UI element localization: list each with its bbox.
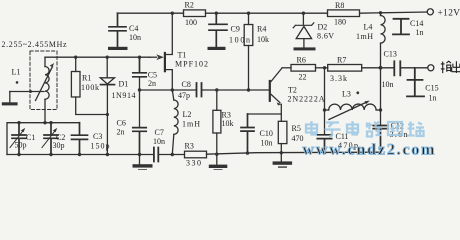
svg-text:150p: 150p xyxy=(91,142,110,151)
variable capacitor C2 xyxy=(44,123,58,155)
svg-text:R2: R2 xyxy=(185,1,194,10)
svg-text:D1: D1 xyxy=(119,80,129,89)
svg-text:1n: 1n xyxy=(416,28,424,37)
watermark line 1 (hollow blue characters) xyxy=(306,121,424,137)
ground bar R5 xyxy=(273,161,293,164)
svg-text:2N2222A: 2N2222A xyxy=(288,95,325,104)
svg-text:1mH: 1mH xyxy=(356,32,373,41)
capacitor C3 xyxy=(72,123,88,155)
svg-text:10n: 10n xyxy=(382,80,394,89)
svg-text:R4: R4 xyxy=(257,25,266,34)
wire T1 drain to rail xyxy=(165,13,172,54)
svg-text:D2: D2 xyxy=(318,23,328,32)
T2 collector xyxy=(271,68,282,82)
wire ground bus left segment xyxy=(7,154,154,156)
T2 emitter with arrow xyxy=(271,94,280,102)
svg-text:10k: 10k xyxy=(222,119,234,128)
ground bar R3 xyxy=(209,165,228,168)
wire R1 bottom to D1 line xyxy=(76,97,108,115)
svg-text:C13: C13 xyxy=(384,50,397,59)
svg-text:www.cndz2.com: www.cndz2.com xyxy=(303,142,436,159)
inductor L1 (variable, in shield box) xyxy=(44,57,46,66)
variable capacitor C1 xyxy=(12,123,26,155)
svg-text:L1: L1 xyxy=(12,68,21,77)
ground bar L1 xyxy=(2,102,18,105)
svg-text:100k: 100k xyxy=(81,83,99,92)
label output (Chinese) xyxy=(441,61,460,73)
capacitor C11 xyxy=(317,135,331,153)
resistor R4 xyxy=(248,13,250,24)
svg-text:C15: C15 xyxy=(425,84,438,93)
inductor L2 xyxy=(172,90,174,100)
wire R4 bottom to base node xyxy=(248,46,250,91)
wire branch right tank (output node down to L3/C12) xyxy=(380,68,382,125)
svg-text:C1: C1 xyxy=(26,133,35,142)
svg-text:MPF102: MPF102 xyxy=(175,60,208,69)
resistor R7 xyxy=(328,65,362,72)
capacitor C10 xyxy=(241,114,254,153)
svg-text:T2: T2 xyxy=(288,86,297,95)
diode D1 xyxy=(106,57,108,77)
svg-text:C5: C5 xyxy=(148,70,157,79)
wire bus C7 to R3 xyxy=(159,154,185,156)
svg-text:T1: T1 xyxy=(178,51,187,60)
svg-text:2.255~2.455MHz: 2.255~2.455MHz xyxy=(2,40,67,49)
svg-text:C9: C9 xyxy=(231,25,240,34)
wire bus R3 to right xyxy=(207,152,381,154)
capacitor C5 xyxy=(133,57,146,77)
wire C8 to T2 base xyxy=(202,89,269,91)
svg-text:2n: 2n xyxy=(117,128,125,137)
svg-text:50p: 50p xyxy=(15,141,27,150)
svg-text:C8: C8 xyxy=(182,80,191,89)
capacitor C7 (series in bus) xyxy=(154,148,158,162)
ground bar C4 xyxy=(108,47,128,50)
resistor R3 10k xyxy=(216,90,218,110)
ground stem R3 xyxy=(216,154,218,165)
wire R7 to output node xyxy=(362,67,394,69)
ground bar C6 xyxy=(133,164,153,167)
shield dashed box L1 xyxy=(30,51,57,110)
terminal +12V xyxy=(427,9,433,15)
svg-text:R3: R3 xyxy=(185,142,194,151)
resistor R1 xyxy=(75,57,77,71)
gate arrow T1 xyxy=(149,56,157,58)
svg-text:3.3k: 3.3k xyxy=(330,74,347,83)
svg-text:2n: 2n xyxy=(148,79,156,88)
capacitor C8 (series) xyxy=(197,83,202,97)
arrow of adjustable core L3 xyxy=(329,102,366,119)
svg-text:30p: 30p xyxy=(53,141,65,150)
svg-text:R5: R5 xyxy=(292,124,301,133)
capacitor C14 xyxy=(393,19,409,35)
svg-text:C4: C4 xyxy=(129,24,138,33)
ground stem C6 xyxy=(139,155,141,165)
wire +12V rail left segment xyxy=(118,12,184,14)
wire source node xyxy=(140,89,197,91)
svg-text:1n: 1n xyxy=(429,94,437,103)
wire tank node top xyxy=(7,123,80,155)
capacitor C6 xyxy=(133,128,146,155)
wire gate bus xyxy=(45,56,150,58)
ground bar D2 xyxy=(294,47,316,50)
resistor R5 xyxy=(280,114,282,121)
arrow of adjustable core L1 xyxy=(36,67,53,101)
JFET T1 xyxy=(164,53,166,71)
svg-text:C14: C14 xyxy=(410,19,423,28)
svg-text:R1: R1 xyxy=(82,74,91,83)
zener diode D2 xyxy=(302,13,304,24)
BJT T2 xyxy=(269,81,271,101)
capacitor C12 xyxy=(373,126,388,153)
wire collector node to R6 xyxy=(282,67,291,69)
svg-text:47p: 47p xyxy=(178,91,190,100)
wire C13 to output terminal xyxy=(401,67,428,69)
terminal output xyxy=(428,65,434,71)
svg-text:L3: L3 xyxy=(342,90,351,99)
wire C5 bottom / C6 top vertical xyxy=(139,77,141,127)
ground bar C9 xyxy=(208,47,226,50)
svg-text:+12V: +12V xyxy=(438,9,460,19)
wire +12V rail right segment xyxy=(360,12,428,13)
wire R6 to junction xyxy=(316,67,328,69)
wire +12V rail mid segment xyxy=(206,12,328,14)
svg-text:10n: 10n xyxy=(153,137,165,146)
wire branch left tank (R6R7 junction down to L3/C11) xyxy=(324,68,326,135)
svg-text:C3: C3 xyxy=(93,132,102,141)
capacitor C4 xyxy=(109,13,126,46)
resistor R8 xyxy=(328,10,360,17)
svg-text:10n: 10n xyxy=(261,139,273,148)
svg-text:1mH: 1mH xyxy=(182,120,200,129)
capacitor C9 xyxy=(209,13,227,47)
svg-text:330: 330 xyxy=(186,158,201,167)
svg-text:100: 100 xyxy=(185,18,197,27)
resistor R6 xyxy=(291,65,316,72)
ground stem R5 xyxy=(280,153,282,161)
svg-text:10k: 10k xyxy=(257,35,269,44)
svg-text:10n: 10n xyxy=(129,33,141,42)
svg-text:180: 180 xyxy=(334,18,346,27)
svg-text:C7: C7 xyxy=(155,128,164,137)
svg-text:L4: L4 xyxy=(364,23,373,32)
svg-text:C10: C10 xyxy=(260,129,273,138)
svg-text:R7: R7 xyxy=(337,56,346,65)
svg-text:22: 22 xyxy=(299,72,307,81)
svg-text:R8: R8 xyxy=(335,1,344,10)
resistor R2 xyxy=(184,10,206,17)
capacitor C13 (series) xyxy=(394,61,400,75)
svg-text:C6: C6 xyxy=(117,119,126,128)
svg-text:R6: R6 xyxy=(297,56,306,65)
inductor L4 xyxy=(380,13,382,16)
inductor L3 (variable) xyxy=(325,109,329,111)
svg-text:100n: 100n xyxy=(229,35,250,44)
wire emitter node xyxy=(248,113,282,115)
capacitor C15 xyxy=(407,68,424,96)
resistor R3 330 xyxy=(185,151,207,158)
svg-text:1N914: 1N914 xyxy=(112,91,136,100)
wire L1 tap to ground xyxy=(10,91,44,93)
svg-text:8.6V: 8.6V xyxy=(317,32,334,41)
svg-text:L2: L2 xyxy=(183,110,192,119)
